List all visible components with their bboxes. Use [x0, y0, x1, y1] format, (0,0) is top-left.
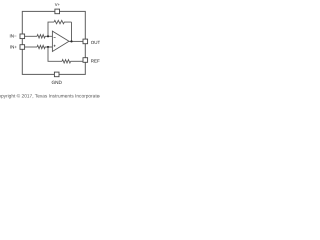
op-amp plus sign: [54, 45, 56, 47]
pin IN- square: [20, 34, 25, 39]
pin GND square: [54, 72, 59, 77]
svg-text:IN+: IN+: [10, 44, 18, 49]
svg-text:REF: REF: [91, 58, 100, 63]
wire resistor R4 to REF pin: [71, 60, 83, 62]
resistor R3 (feedback resistor): [54, 20, 72, 23]
svg-text:V+: V+: [55, 2, 61, 7]
node B junction dot (output / feedback): [70, 40, 72, 42]
svg-text:IN−: IN−: [9, 34, 17, 39]
resistor R1 (IN- input resistor): [37, 35, 52, 38]
node C junction dot (IN+ / divider): [47, 46, 49, 48]
node A junction dot (IN- / feedback): [47, 35, 49, 37]
resistor R4 (REF divider resistor): [62, 60, 71, 63]
pin REF square: [83, 58, 88, 63]
wire feedback riser from node A up and across: [48, 22, 54, 36]
wire op-amp output to OUT pin: [69, 40, 83, 42]
svg-text:OUT: OUT: [91, 40, 100, 45]
pin V+ square: [55, 9, 60, 14]
resistor R2 (IN+ input resistor): [37, 45, 52, 48]
wire IN- input from pin to op-amp: [25, 35, 37, 37]
svg-text:GND: GND: [51, 80, 62, 85]
wire from node C down to REF branch: [48, 47, 62, 61]
device body box U1: [22, 11, 85, 74]
wire feedback drop to output node B: [71, 22, 73, 41]
svg-text:Copyright © 2017, Texas Instru: Copyright © 2017, Texas Instruments Inco…: [0, 93, 100, 99]
op-amp minus sign: [54, 36, 56, 38]
pin IN+ square: [20, 45, 25, 50]
pin OUT square: [83, 39, 88, 44]
wire IN+ input from pin: [25, 46, 37, 48]
op-amp U2: [52, 31, 69, 51]
